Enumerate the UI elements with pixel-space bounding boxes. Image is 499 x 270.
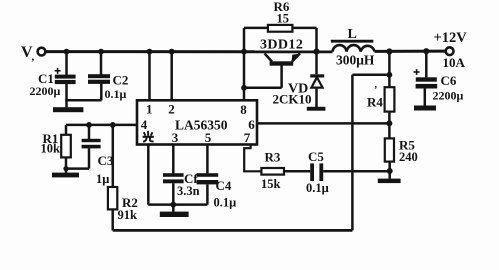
ground (Cf) [160, 205, 189, 217]
svg-text:300μH: 300μH [336, 53, 375, 68]
node R1 bottom [63, 166, 68, 171]
svg-text:L: L [348, 27, 357, 42]
wire top rail right of inductor [375, 50, 446, 53]
node C5 junction [387, 168, 393, 174]
svg-text:10A: 10A [443, 55, 466, 70]
svg-text:3.3n: 3.3n [177, 184, 200, 198]
svg-text:’: ’ [374, 85, 377, 96]
resistor R5 [385, 138, 418, 165]
wire pin2 riser [170, 52, 173, 101]
svg-text:15: 15 [277, 12, 290, 26]
svg-text:3: 3 [172, 130, 179, 145]
svg-text:91k: 91k [118, 208, 138, 222]
resistor R6 [244, 0, 317, 52]
svg-text:10k: 10k [41, 142, 61, 156]
capacitor C2 [65, 52, 128, 101]
svg-text:4: 4 [141, 117, 148, 132]
wire R1-C3 bottom link [66, 167, 89, 170]
wire R5 bottom [388, 162, 391, 179]
svg-text:0.1μ: 0.1μ [105, 87, 127, 101]
wire R4 riser [388, 52, 391, 88]
svg-text:5: 5 [205, 130, 212, 145]
wire pin4 line [66, 124, 137, 127]
node pin6 junction [386, 120, 392, 126]
svg-text:1μ: 1μ [96, 172, 109, 186]
capacitor C4 [197, 173, 237, 209]
svg-text:7: 7 [244, 130, 251, 145]
node Cf ground junction [170, 202, 176, 208]
wire C5 to R5 bottom [323, 170, 390, 173]
input terminal Vi [38, 48, 46, 56]
node C6 tap [423, 48, 429, 54]
svg-text:C2: C2 [113, 73, 129, 88]
node R6 left / pin8 tap [241, 49, 247, 55]
svg-text:R3: R3 [265, 150, 281, 165]
ground (R5) [378, 179, 401, 184]
ground (C6) [414, 106, 436, 111]
resistor R4 [367, 85, 394, 112]
svg-text:LA56350: LA56350 [175, 118, 228, 133]
capacitor C6 [414, 51, 464, 106]
capacitor C3 [82, 125, 114, 186]
node pin1 tap [147, 49, 153, 55]
node R2 tap [110, 122, 116, 128]
ground (VD) [307, 107, 326, 111]
pin label guang (smudged glyph) [143, 131, 154, 142]
wire feedback vertical [351, 75, 354, 231]
svg-text:15k: 15k [261, 177, 281, 191]
svg-text:C5: C5 [308, 149, 324, 164]
svg-text:2200μ: 2200μ [30, 84, 61, 98]
op-amp U1 LA56350 (regulator IC box) [137, 100, 257, 145]
svg-text:C6: C6 [441, 73, 457, 88]
resistor R1 [41, 125, 71, 169]
svg-text:0.1μ: 0.1μ [214, 196, 237, 210]
svg-text:240: 240 [399, 150, 418, 164]
diode VD 2CK10 [273, 52, 325, 107]
node L output [386, 48, 392, 54]
svg-text:2200μ: 2200μ [433, 89, 464, 103]
svg-text:2: 2 [168, 102, 175, 117]
svg-text:8: 8 [240, 102, 247, 117]
svg-text:1: 1 [146, 102, 153, 117]
capacitor C1 [30, 52, 76, 108]
wire pin5 drop [206, 145, 209, 174]
node C2 tap [98, 49, 104, 55]
wire feedback top [352, 74, 389, 77]
wire top rail left of inductor [46, 50, 333, 53]
svg-text:2CK10: 2CK10 [273, 92, 312, 107]
capacitor Cf [163, 171, 200, 205]
wire pin8 base line [244, 87, 282, 90]
wire pin1 riser [148, 52, 151, 101]
wire feedback bottom [113, 229, 353, 232]
node pin2 tap [169, 49, 175, 55]
svg-text:+12V: +12V [434, 30, 468, 46]
inductor L [331, 27, 375, 68]
node C3 tap [86, 122, 92, 128]
wire pin3 drop [172, 145, 175, 174]
wire pin6 feedback line [257, 122, 389, 125]
node feedback-output junction [387, 72, 393, 78]
node pin8-base junction [241, 85, 247, 91]
node diode / R6 right tap [313, 49, 319, 55]
svg-text:R4: R4 [367, 95, 383, 110]
svg-text:C4: C4 [216, 178, 232, 193]
transistor Q1 3DD12 [260, 38, 303, 88]
wire pin7 drop [244, 145, 261, 172]
ground (C1) [53, 107, 83, 112]
wire pin8 riser [243, 52, 246, 101]
output terminal +12V [446, 47, 454, 55]
node C1 tap [64, 49, 70, 55]
wire R4 to R5 [388, 112, 391, 139]
wire guang pin drop [147, 145, 150, 205]
resistor R2 [108, 125, 138, 230]
svg-text:3DD12: 3DD12 [260, 38, 303, 53]
ground (R1) [52, 169, 79, 178]
svg-text:0.1μ: 0.1μ [306, 181, 329, 195]
capacitor C5 [306, 149, 329, 195]
svg-text:C3: C3 [98, 153, 114, 168]
wire caps bottom link [148, 203, 207, 206]
svg-text:,: , [32, 51, 35, 63]
resistor R3 [261, 150, 310, 192]
